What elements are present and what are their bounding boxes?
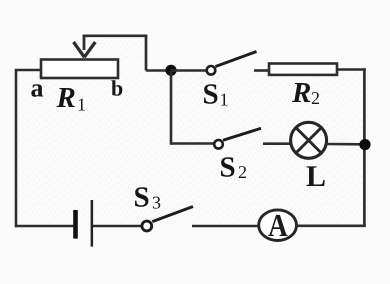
wire S1 to R2 [254,69,270,72]
svg-text:S: S [134,182,150,214]
svg-text:1: 1 [77,95,86,115]
switch S2 blade [223,128,261,140]
svg-text:R: R [56,82,76,114]
rheostat R1 wiper arrow [74,35,96,58]
battery cell [73,200,93,247]
wire S2 to lamp [263,142,291,145]
svg-text:b: b [111,76,123,101]
switch S1 hinge circle [207,66,216,75]
switch S3 blade [152,207,193,222]
wire a-terminal horizontal [15,69,42,72]
wire lamp to right node [326,143,363,146]
wire node to S1 [171,69,207,72]
wire right vertical [363,68,366,227]
svg-text:A: A [268,207,288,243]
ammeter A body [259,210,297,241]
svg-text:2: 2 [311,88,320,108]
switch S3 hinge circle [142,221,152,231]
wire wiper top horizontal [83,34,148,37]
wire to S2 hinge [171,142,214,145]
resistor R2 body [269,64,337,75]
svg-text:a: a [31,74,44,103]
node junction dot right [359,139,370,150]
svg-text:3: 3 [152,193,161,213]
svg-text:2: 2 [238,162,247,182]
wire S3 to ammeter [192,225,260,228]
switch S1 blade [216,52,257,67]
wire battery to S3 [93,225,141,228]
svg-text:S: S [220,152,236,184]
svg-text:L: L [306,160,326,193]
switch S2 hinge circle [214,140,223,149]
wire node down to S2 branch [170,71,173,145]
wire bottom from left corner to battery [15,225,74,228]
node junction dot top [165,65,176,76]
lamp L symbol [291,122,327,158]
rheostat R1 body [41,60,118,79]
wire ammeter to right corner [296,224,366,227]
svg-text:S: S [203,79,219,111]
wire wiper down vertical [145,35,148,71]
wire left vertical [15,69,18,227]
wire R2 to right corner [337,68,366,71]
svg-text:1: 1 [220,90,229,110]
wire into node [146,69,171,72]
svg-text:R: R [291,77,311,109]
